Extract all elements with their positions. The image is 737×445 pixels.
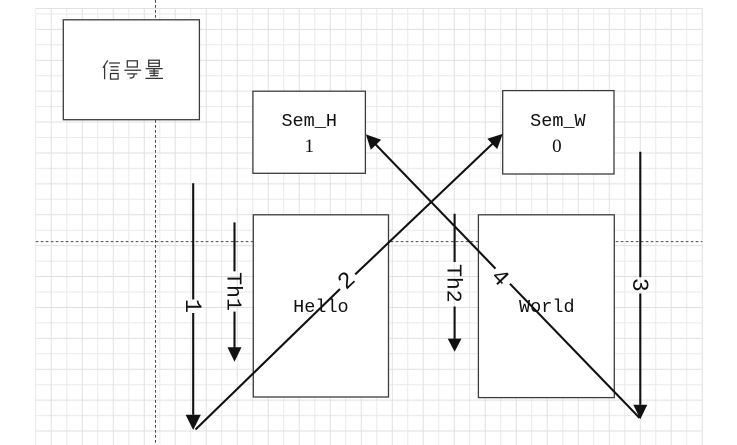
svg-text:3: 3 [625,278,652,292]
vertical dashed guide [155,0,157,445]
box World [478,215,614,398]
box Hello [253,215,388,397]
arrow Th2 head [448,339,462,352]
arrow 2 head [487,134,502,149]
box Sem_H [253,91,366,173]
arrow 1 head [186,415,201,430]
arrow Th1 head [228,347,242,361]
arrow 3 line [639,152,641,405]
svg-text:Th1: Th1 [221,272,245,311]
arrow Th1 line [233,222,235,347]
svg-text:1: 1 [304,136,314,157]
arrow Th2 line [454,214,456,339]
svg-text:Sem_W: Sem_W [530,111,586,132]
svg-text:0: 0 [552,136,562,157]
svg-text:1: 1 [178,299,205,313]
arrow 4 head [366,134,381,149]
arrow 3 head [633,405,647,420]
arrow 2 line [196,143,494,429]
box 信号量 [63,20,199,120]
box Sem_W [503,91,614,174]
arrow 1 line [192,183,194,415]
svg-text:Th2: Th2 [441,264,465,303]
svg-text:Sem_H: Sem_H [281,111,337,132]
text 信号量 [103,60,163,79]
horizontal dashed guide [36,241,703,243]
arrow 4 line [375,144,639,418]
